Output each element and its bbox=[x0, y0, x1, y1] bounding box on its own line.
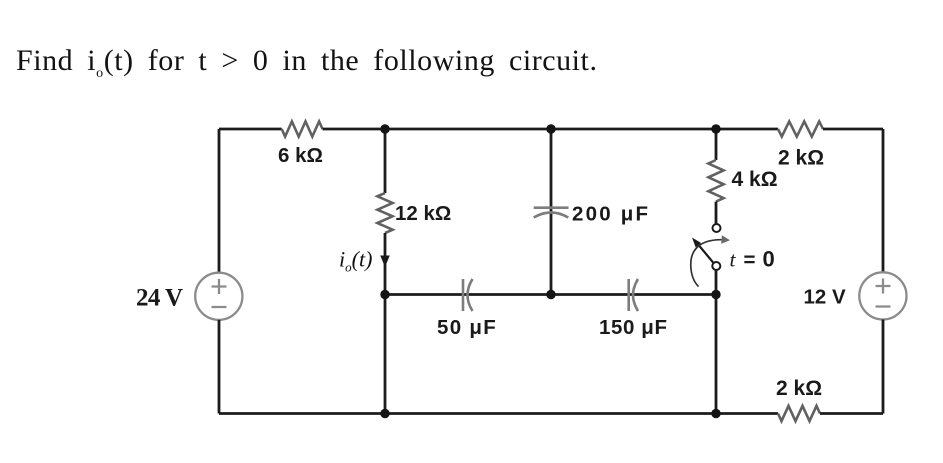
voltage source V1 24 V bbox=[195, 273, 242, 320]
node junction dot middle x=385 bbox=[380, 290, 389, 299]
wire: right rail upper bbox=[882, 129, 885, 272]
wire: branch x=716 to bottom rail bbox=[715, 295, 718, 414]
wire: branch x=551 (200uF) bbox=[550, 129, 553, 295]
svg-text:200 μF: 200 μF bbox=[572, 203, 650, 226]
node junction dot top x=716 bbox=[711, 124, 720, 133]
capacitor C3 150 uF bbox=[629, 279, 638, 311]
capacitor C1 50 uF bbox=[463, 279, 473, 311]
svg-text:150 μF: 150 μF bbox=[599, 316, 668, 339]
switch SW1 motion arc with arrowhead bbox=[691, 235, 730, 286]
switch SW1 top contact bbox=[713, 224, 721, 232]
wire: top rail middle segment bbox=[323, 128, 779, 131]
capacitor C2 200 uF bbox=[534, 208, 569, 218]
node junction dot top x=385 bbox=[380, 124, 389, 133]
switch SW1 blade with arrowhead bbox=[692, 238, 714, 264]
wire: branch x=385 to bottom rail bbox=[384, 295, 387, 414]
node junction dot bottom x=716 bbox=[711, 409, 720, 418]
resistor R5 2 kOhm (bottom right) bbox=[778, 406, 820, 421]
svg-text:t=0: t=0 bbox=[730, 247, 775, 272]
wire: switch bottom to middle rail bbox=[715, 270, 718, 295]
wire: top rail right end bbox=[823, 128, 883, 131]
wire: branch x=385 lower with current direction bbox=[384, 233, 387, 295]
wire: 4k to switch top contact bbox=[715, 202, 718, 224]
svg-text:12 kΩ: 12 kΩ bbox=[395, 202, 451, 225]
node junction dot top x=551 bbox=[546, 124, 555, 133]
resistor R1 6 kOhm (top left) bbox=[282, 121, 323, 136]
switch SW1 bottom contact bbox=[712, 262, 720, 270]
wire: branch x=716 top (top rail to 4k) bbox=[715, 129, 718, 160]
svg-text:24 V: 24 V bbox=[136, 285, 183, 312]
voltage source V2 12 V bbox=[859, 272, 906, 319]
node junction dot middle x=716 bbox=[711, 290, 720, 299]
svg-text:2 kΩ: 2 kΩ bbox=[778, 147, 824, 170]
resistor R3 4 kOhm bbox=[708, 160, 723, 202]
wire: left rail upper bbox=[218, 129, 221, 273]
node junction dot bottom x=385 bbox=[380, 409, 389, 418]
node junction dot middle x=551 bbox=[546, 290, 555, 299]
svg-text:4 kΩ: 4 kΩ bbox=[732, 168, 778, 191]
wire: bottom rail right end bbox=[820, 412, 883, 415]
title text bbox=[16, 44, 598, 78]
wire: right rail lower bbox=[882, 320, 885, 414]
svg-text:50 μF: 50 μF bbox=[437, 316, 497, 339]
svg-text:12 V: 12 V bbox=[804, 286, 846, 309]
svg-text:6 kΩ: 6 kΩ bbox=[278, 144, 323, 167]
wire: branch x=385 upper (top rail to 12k) bbox=[384, 129, 387, 193]
wire: top rail left segment bbox=[219, 128, 282, 131]
svg-text:2 kΩ: 2 kΩ bbox=[776, 377, 822, 400]
wire: middle rail segment 1 bbox=[385, 293, 716, 296]
svg-text:io(t): io(t) bbox=[339, 247, 372, 275]
resistor R4 2 kOhm (top right) bbox=[778, 121, 823, 136]
current arrow io(t) bbox=[380, 256, 390, 268]
resistor R2 12 kOhm bbox=[377, 193, 392, 233]
wire: bottom rail left segment bbox=[219, 412, 778, 415]
wire: left rail lower bbox=[218, 320, 221, 414]
